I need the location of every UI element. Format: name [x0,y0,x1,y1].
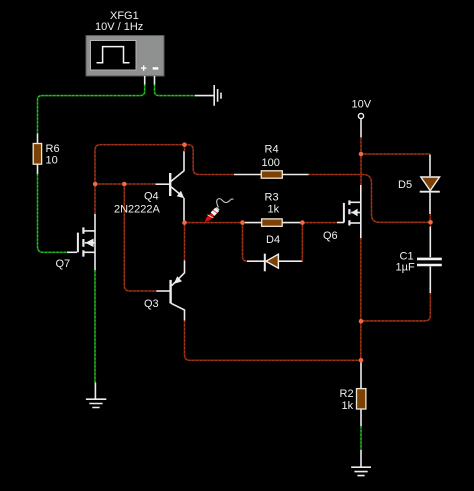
svg-text:+: + [141,63,147,75]
svg-text:10V / 1Hz: 10V / 1Hz [95,21,143,33]
label Q4 2N2222A [114,191,161,216]
ground (below R2) [351,450,371,476]
label C1 1uF [396,251,415,274]
svg-text:Q7: Q7 [56,258,71,270]
function generator XFG1 label [95,10,143,33]
junction node Q6 source/C1 [359,319,364,324]
label R6 10 [46,143,60,167]
probe icon [202,199,233,225]
pin - of XFG1 [154,76,156,85]
wire C1 bottom to Q6 source node (red) [361,293,430,321]
wire R4 right side down to D5/C1 node (red) [309,175,431,223]
junction node base rail left [93,182,98,187]
wire base rail down to Q3 base (red) [124,184,156,291]
svg-text:2N2222A: 2N2222A [114,204,161,216]
wire R6 to Q7 gate (green) [38,174,68,252]
wire R3 right to Q6 gate (red) [302,222,337,224]
wire XFG1- to ground (green) [155,85,196,96]
junction node 10V/D5 [359,152,364,157]
transistor Q4 [170,151,184,221]
svg-text:1k: 1k [268,204,280,216]
Q6 gate pin [337,222,344,224]
wire XFG1+ to R6 (green) [38,85,145,134]
resistor R2 [357,362,366,426]
pin + of XFG1 [144,76,146,85]
resistor R3 [245,219,300,226]
function generator XFG1 body [86,36,164,77]
label R4 100 [262,144,280,170]
label R3 1k [265,192,280,216]
junction node R3 right [300,220,305,225]
svg-text:1µF: 1µF [396,262,415,274]
svg-text:D5: D5 [398,179,412,191]
ground (below Q7) [86,383,106,408]
svg-text:Q4: Q4 [144,191,159,203]
wire 10V node right to D5 (red) [361,153,430,155]
10V supply [352,99,372,138]
svg-text:R2: R2 [340,388,354,400]
wire D5 to node (red) [429,214,431,222]
svg-text:R3: R3 [265,192,279,204]
wire Q3 collector down and right to R2 node (red) [185,321,362,361]
svg-text:R6: R6 [46,143,60,155]
resistor R4 [234,171,309,178]
Q4 base pin [156,183,170,185]
svg-text:D4: D4 [266,234,280,246]
wire Q7 drain up and right to Q4 collector node (red) [95,145,185,214]
Q3 base pin [156,290,169,292]
wire Q7 source to ground (green) [94,270,96,382]
wire D4 loop right (red) [301,225,303,262]
transistor Q7 (NMOS) [78,214,95,270]
svg-text:10V: 10V [352,99,372,111]
wire Q6 source down (red) [360,238,362,360]
junction node Q4 collector [182,142,187,147]
wire Q4 collector node to R4 (red) [185,145,235,175]
Q7 gate pin [67,251,77,253]
diode D4 [247,254,303,272]
wire base rail y=184 (red) [95,183,156,185]
svg-text:100: 100 [262,157,280,169]
capacitor C1 [417,222,442,293]
svg-text:R4: R4 [265,144,279,156]
resistor R6 [33,134,41,175]
wire D4 loop left (red) [243,223,250,262]
wire R2 bottom (green) [360,426,362,450]
wire Q4 emitter node to R3 (red) [185,222,246,224]
transistor Q3 [171,261,185,321]
wire 10V down to Q6 drain (red) [360,137,362,185]
svg-text:Q3: Q3 [144,298,159,310]
junction node D5/C1 [428,220,433,225]
diode D5 [420,155,440,215]
svg-text:1k: 1k [342,400,354,412]
label R2 1k [340,388,354,412]
junction node base rail to Q3 [122,182,127,187]
wire Q4 emitter node down to Q3 emitter (red) [184,225,186,261]
junction node R3 left [240,220,245,225]
svg-text:Q6: Q6 [323,230,338,242]
junction node R2 top [359,358,364,363]
junction node Q4 emitter [182,220,187,225]
transistor Q6 (NMOS) [344,185,361,238]
ground (right of XFG1) [195,85,221,106]
svg-text:10: 10 [46,155,58,167]
